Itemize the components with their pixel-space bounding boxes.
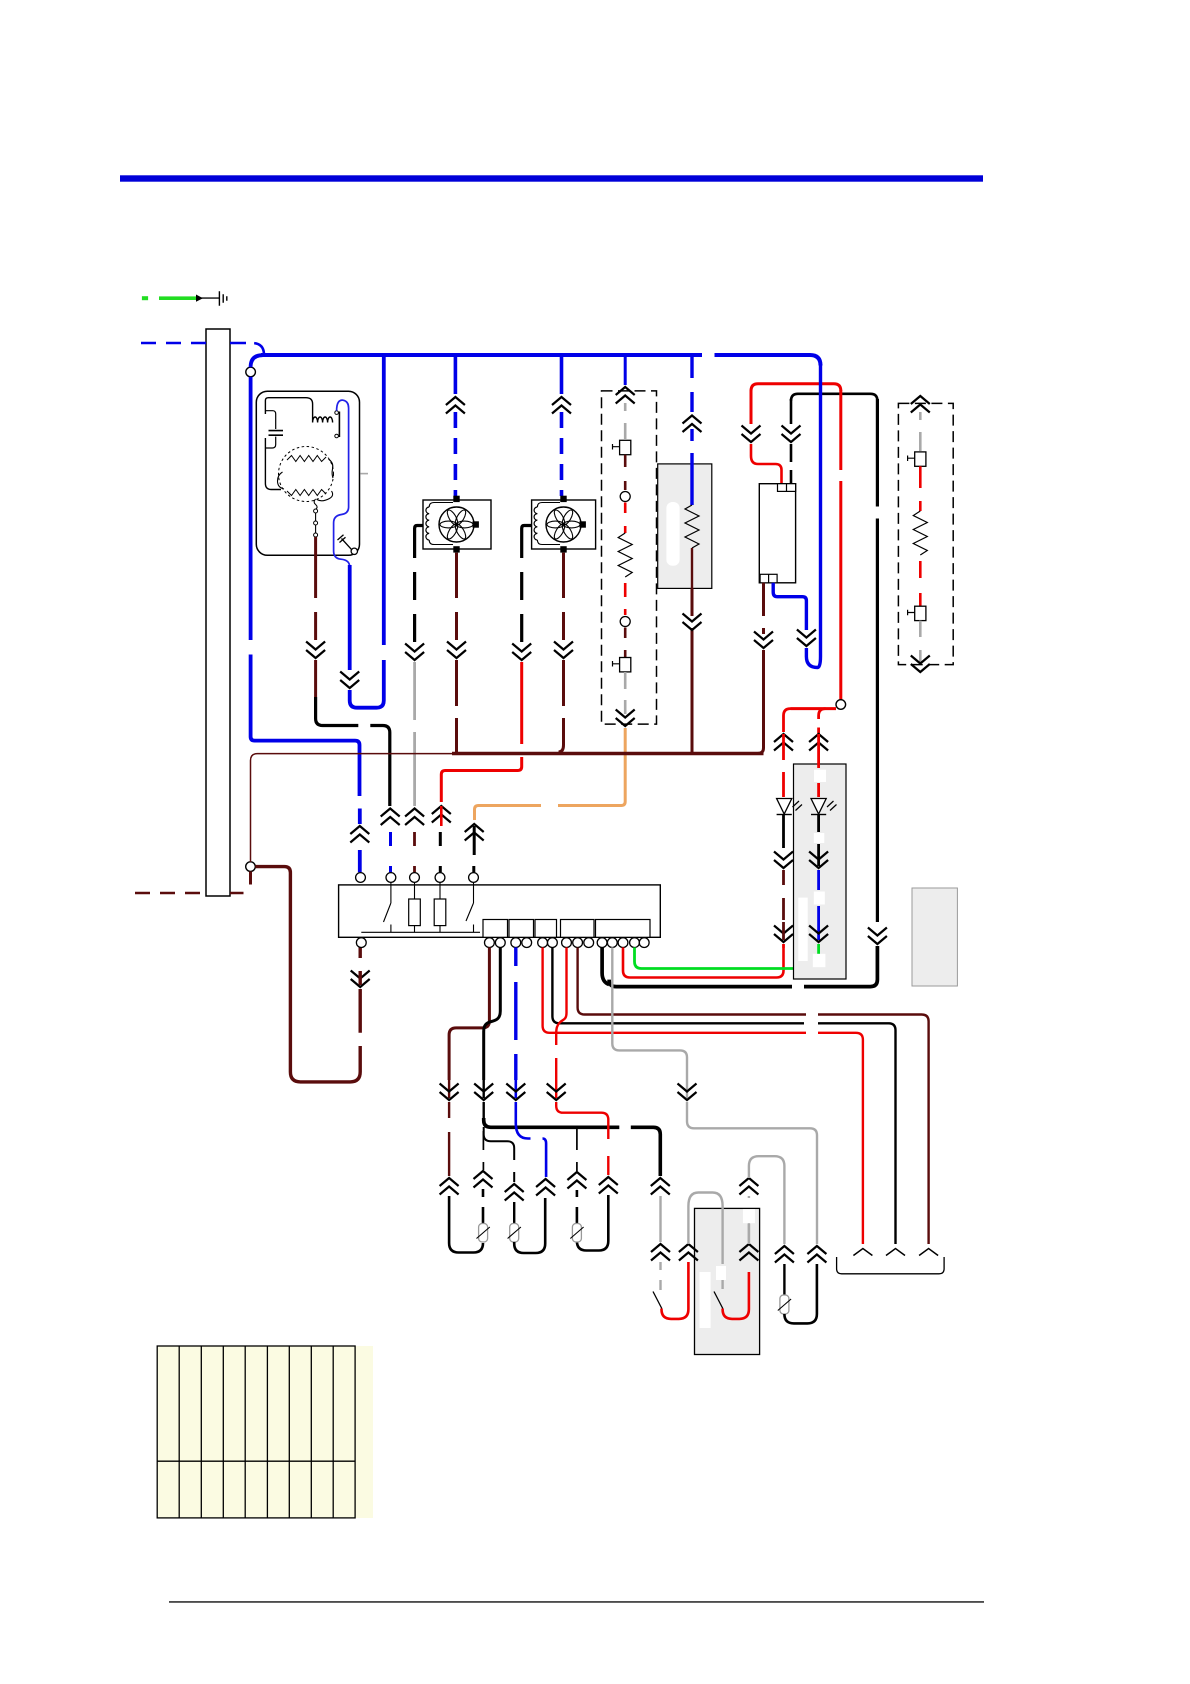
wire: main blue supply bus (top horizontal) bbox=[261, 355, 821, 366]
relay K1 body bbox=[759, 484, 795, 583]
wire: dark red ground bus (thin left part) bbox=[251, 754, 457, 862]
wire: dark red bbox=[624, 628, 627, 658]
main bus bar (vertical) bbox=[206, 329, 230, 896]
wire: black below LED2 bbox=[817, 815, 820, 853]
fuse F3 bbox=[908, 452, 926, 466]
internal bus line bbox=[361, 931, 480, 933]
wire: dark red ground bus (thick right part) bbox=[452, 752, 764, 755]
ground symbol bbox=[219, 291, 226, 305]
coil core bar bbox=[338, 412, 340, 438]
dashed enclosure bbox=[602, 391, 657, 724]
motor M (dashed circle) bbox=[279, 447, 334, 502]
resistor R2 (zigzag) bbox=[685, 505, 699, 548]
wire: gray hop bbox=[688, 1193, 722, 1265]
inductor coil of clutch bbox=[313, 417, 333, 423]
wire: red right drop to node bbox=[839, 390, 842, 700]
ground legend: lead bbox=[200, 297, 219, 298]
connector bracket at bottom right bbox=[837, 1257, 945, 1274]
fuse F4 bbox=[908, 606, 926, 620]
wire: green from pin 634 to LED panel bbox=[635, 946, 819, 969]
wire: blue drop to control box pin1 bbox=[358, 809, 362, 873]
instrument module (gray block) bbox=[912, 888, 957, 986]
wire: red from pin 623 to LED panel bbox=[623, 947, 784, 977]
arrow up on blue drop bbox=[350, 826, 369, 843]
output modules bbox=[483, 920, 508, 938]
wire: blue from pin 516 bbox=[514, 947, 517, 1080]
wire: red bbox=[624, 503, 627, 534]
wire: dark red bbox=[782, 870, 785, 920]
fuse F1 bbox=[613, 440, 631, 454]
pressure switch S3 bbox=[653, 1292, 662, 1309]
wire: dark red bbox=[624, 455, 627, 490]
wire: red drop to relay bbox=[750, 390, 753, 424]
wire: black loop to lamp E3 bbox=[577, 1190, 608, 1251]
footer rule bbox=[169, 1601, 984, 1602]
wire: gray up with two arrows bbox=[739, 1244, 758, 1261]
resistor R3 (zigzag) bbox=[913, 511, 927, 555]
wire: red U to next leg bbox=[662, 1262, 689, 1319]
wire: blue dashed feed to fan M2 bbox=[454, 357, 458, 394]
wire: red continues, jogs left to pin4 bbox=[441, 662, 521, 802]
fuse F2 bbox=[613, 658, 631, 672]
wire: branch to lamp E2 bbox=[484, 1127, 515, 1182]
wire: blue dashed feed into bus bar bbox=[141, 342, 206, 345]
wire: red bbox=[919, 466, 922, 511]
wire: dark red out to bus bbox=[691, 548, 693, 588]
resistor R1 (zigzag) bbox=[618, 533, 632, 577]
fan motor M3 bbox=[532, 496, 596, 553]
wire: dark-red dashed feed into bus bar bbox=[135, 892, 244, 895]
LED D2 bbox=[811, 799, 837, 815]
wire: black from pin 500 bbox=[484, 947, 501, 1080]
switch S2 bbox=[466, 882, 474, 932]
wire: black loop to lamp E1 bbox=[449, 1189, 483, 1253]
compressor internal wiring loop bbox=[265, 398, 312, 417]
ground legend: green wire stub bbox=[142, 291, 227, 305]
top pins bbox=[356, 873, 366, 883]
wire: gray continues down to pin3 bbox=[413, 662, 416, 806]
wire: dark red stub below C2 bbox=[249, 871, 252, 884]
wire: red from splice to LED wires bbox=[791, 707, 837, 710]
capacitor C bbox=[269, 431, 284, 436]
white patches inside box bbox=[700, 1272, 711, 1328]
winding joints bbox=[278, 459, 334, 501]
wire: black from fan M3 left bbox=[522, 526, 532, 643]
wire: red LED1 feed bbox=[784, 709, 791, 732]
wire: gray bbox=[919, 412, 922, 451]
node: red splice bbox=[836, 700, 846, 710]
wire: dark red out of relay to bus bbox=[762, 583, 765, 634]
wire: gray bbox=[624, 672, 627, 714]
node bbox=[620, 617, 630, 627]
wire: blue below compressor, U-turn up to bus bbox=[348, 565, 352, 670]
wire: gray hop U1 bbox=[749, 1156, 785, 1244]
wire: green segment bbox=[817, 944, 820, 955]
wire: black stub into pin4 bbox=[439, 832, 442, 872]
wire: dark red below fan M3 to bus bbox=[562, 553, 565, 640]
header rule (blue) bbox=[120, 175, 983, 181]
wire: red to pin 623 horizontal bbox=[782, 944, 785, 948]
wire: orange to control box pin5 bbox=[475, 728, 626, 820]
control unit body bbox=[339, 885, 661, 937]
wire: red bbox=[624, 583, 627, 615]
node: connector C2 on bus bar bbox=[246, 862, 256, 872]
wire: blue stub from bus bbox=[624, 357, 627, 385]
LED D1 bbox=[777, 799, 802, 815]
wire: dark red from compressor motor down bbox=[314, 537, 317, 640]
resistor in unit bbox=[439, 882, 441, 932]
wire: red bridge at top bbox=[751, 384, 841, 391]
wire: blue from C1 down left side bbox=[251, 377, 360, 796]
case ground switch bbox=[338, 535, 352, 550]
wire: gray bbox=[919, 621, 922, 662]
lamp E1 bbox=[477, 1224, 490, 1243]
fan motor M2 bbox=[423, 496, 491, 553]
winding 2 bbox=[287, 490, 326, 496]
wire: black from fan M2 left bbox=[415, 526, 423, 643]
ground legend: arrow bbox=[196, 295, 203, 302]
wire: red from pin 542 to bottom right bbox=[543, 947, 863, 1244]
wire: black to lamp E4 bbox=[783, 1264, 785, 1295]
winding 1 bbox=[287, 456, 326, 462]
wire: blue segment bbox=[817, 870, 820, 940]
resistor in unit bbox=[414, 882, 416, 932]
wire: black from pin 552 to bottom right bbox=[552, 947, 895, 1244]
wire: black top link bbox=[791, 394, 877, 401]
gray tick at compressor right bbox=[361, 473, 369, 475]
motor lead with contacts bbox=[314, 499, 317, 510]
wire: chainA black becomes gray bbox=[651, 1178, 670, 1195]
wire: black U bottom bbox=[784, 1264, 817, 1323]
lamp E3 bbox=[570, 1224, 583, 1243]
wire: blue stub into pin2 bbox=[389, 832, 392, 872]
wire: blue out of relay, loop to bus corner bbox=[773, 583, 806, 630]
wire: dark red from pin 577 to bottom right bbox=[578, 947, 929, 1244]
lamp E2 bbox=[508, 1224, 521, 1243]
wire: red bbox=[919, 561, 922, 606]
wire: long black from relay link down right side bbox=[876, 399, 879, 922]
wire: black below LED1 bbox=[782, 815, 785, 849]
pressure switch S4 bbox=[714, 1292, 723, 1309]
wire: red LED2 feed from splice bbox=[819, 709, 826, 737]
wire: red U to next leg bbox=[723, 1272, 749, 1319]
compressor outer case bbox=[256, 391, 359, 555]
wire: dark red stub into pin3 bbox=[413, 832, 416, 872]
wire: blue dashed feed bbox=[690, 357, 693, 412]
wire: dark red from C2 loop to control box pin0 bbox=[255, 867, 360, 1082]
wire: blue from bus bar to top blue bus bbox=[230, 343, 264, 355]
wire: gray bbox=[624, 403, 627, 439]
node bbox=[620, 492, 630, 502]
wire: gray from pin 612 to pressure switches bbox=[612, 947, 687, 1080]
node: connector C1 on bus bar bbox=[246, 367, 256, 377]
switch S1 bbox=[384, 882, 391, 932]
wire: dark red below fan M2 to bus bbox=[455, 553, 458, 640]
bottom pins bbox=[356, 938, 366, 948]
thin blue wire inside compressor bbox=[334, 400, 350, 567]
wire: blue arc C1 to bus bbox=[251, 355, 263, 367]
lamp E4 bbox=[778, 1295, 791, 1314]
wire: black continues to control box pin2 bbox=[316, 697, 390, 806]
wire: dark red from pin 489 bbox=[449, 947, 489, 1080]
wire: main black distribution (horizontal) bbox=[484, 1118, 661, 1176]
wire: red from pin 566 to lamp group bbox=[556, 947, 566, 1080]
wire: blue dashed feed to fan M3 bbox=[560, 357, 564, 394]
contact dots bbox=[335, 411, 339, 415]
